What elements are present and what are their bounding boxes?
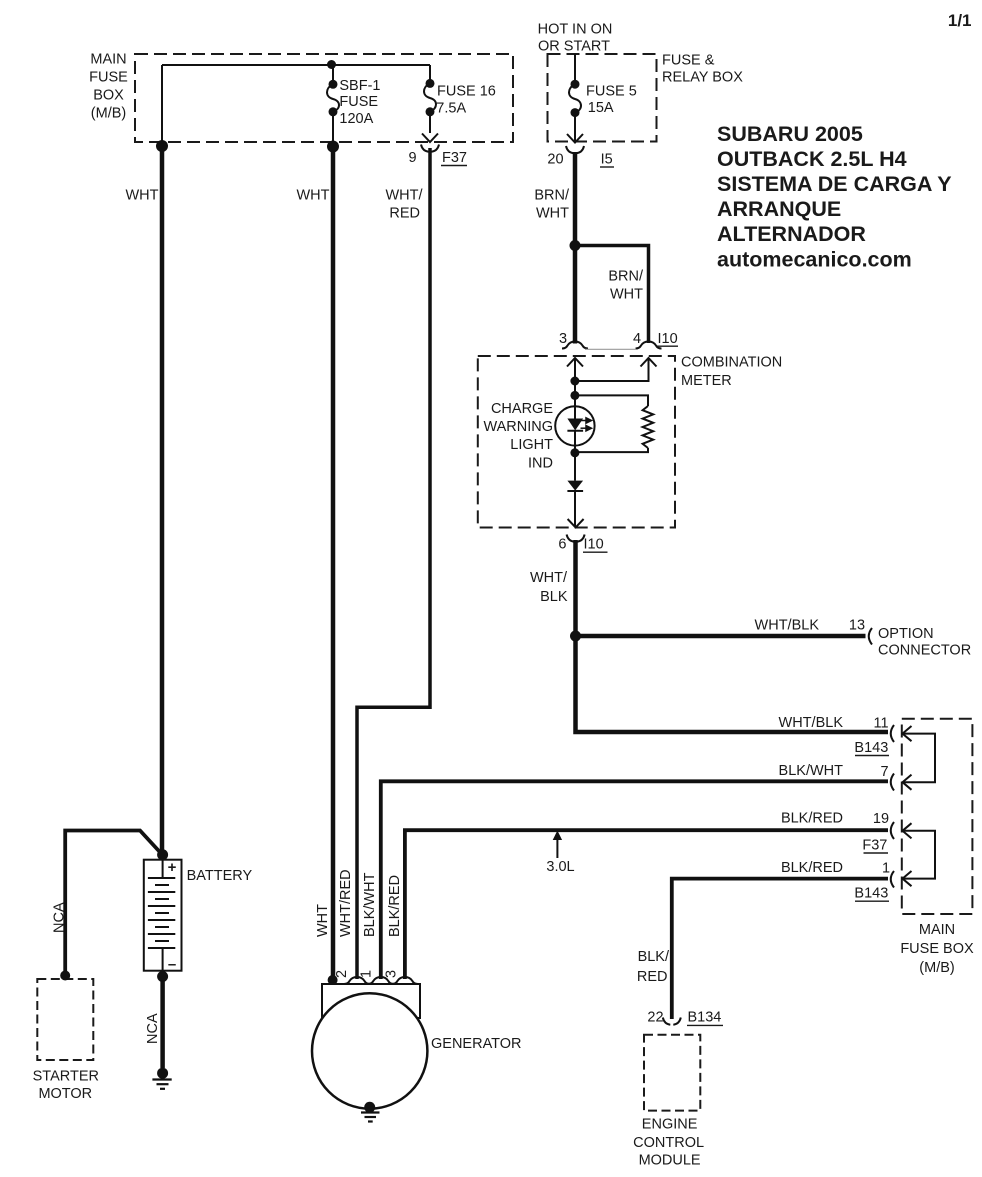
svg-text:–: –	[168, 956, 176, 973]
svg-text:FUSE: FUSE	[89, 70, 128, 86]
svg-text:BLK/WHT: BLK/WHT	[362, 872, 378, 937]
svg-text:RELAY BOX: RELAY BOX	[662, 70, 743, 86]
svg-text:CHARGE: CHARGE	[491, 401, 553, 417]
svg-text:3.0L: 3.0L	[546, 859, 574, 875]
svg-text:(M/B): (M/B)	[91, 106, 126, 122]
svg-text:COMBINATION: COMBINATION	[681, 355, 782, 371]
svg-text:GENERATOR: GENERATOR	[431, 1036, 522, 1052]
svg-text:MOTOR: MOTOR	[38, 1086, 92, 1102]
svg-text:2: 2	[334, 970, 350, 978]
svg-text:FUSE 5: FUSE 5	[586, 84, 637, 100]
svg-text:15A: 15A	[588, 100, 614, 116]
svg-text:WHT/BLK: WHT/BLK	[779, 715, 844, 731]
svg-text:6: 6	[558, 537, 566, 553]
svg-text:1: 1	[882, 861, 890, 877]
svg-text:IND: IND	[528, 456, 553, 472]
svg-text:MAIN: MAIN	[90, 52, 126, 68]
svg-text:BATTERY: BATTERY	[187, 868, 253, 884]
svg-text:BLK/: BLK/	[638, 949, 670, 965]
svg-text:WHT: WHT	[315, 904, 331, 937]
svg-text:7: 7	[880, 764, 888, 780]
svg-text:FUSE BOX: FUSE BOX	[900, 941, 974, 957]
svg-text:BOX: BOX	[93, 88, 124, 104]
svg-text:MODULE: MODULE	[639, 1152, 701, 1168]
svg-text:3: 3	[384, 970, 400, 978]
svg-text:BLK/RED: BLK/RED	[781, 860, 843, 876]
svg-text:OUTBACK 2.5L H4: OUTBACK 2.5L H4	[717, 147, 907, 171]
svg-text:(M/B): (M/B)	[919, 960, 954, 976]
svg-text:FUSE: FUSE	[339, 94, 378, 110]
svg-text:METER: METER	[681, 373, 732, 389]
svg-text:BRN/: BRN/	[608, 269, 644, 285]
svg-text:ENGINE: ENGINE	[642, 1117, 698, 1133]
svg-text:WHT: WHT	[536, 206, 569, 222]
svg-text:FUSE 16: FUSE 16	[437, 84, 496, 100]
svg-text:BLK: BLK	[540, 589, 568, 605]
svg-text:19: 19	[873, 811, 889, 827]
svg-text:F37: F37	[862, 838, 887, 854]
svg-text:B134: B134	[688, 1010, 722, 1026]
svg-text:HOT IN ON: HOT IN ON	[538, 21, 613, 37]
svg-text:1: 1	[359, 970, 375, 978]
svg-text:WHT: WHT	[296, 188, 329, 204]
svg-text:B143: B143	[854, 740, 888, 756]
svg-text:22: 22	[647, 1010, 663, 1026]
svg-text:WHT/RED: WHT/RED	[338, 869, 354, 937]
svg-text:CONNECTOR: CONNECTOR	[878, 643, 971, 659]
svg-text:WHT/: WHT/	[385, 188, 423, 204]
svg-text:SISTEMA DE CARGA Y: SISTEMA DE CARGA Y	[717, 172, 952, 196]
svg-text:FUSE &: FUSE &	[662, 53, 715, 69]
svg-text:120A: 120A	[339, 111, 373, 127]
svg-text:OR START: OR START	[538, 38, 610, 54]
svg-text:BLK/RED: BLK/RED	[387, 875, 403, 937]
svg-text:BRN/: BRN/	[534, 188, 570, 204]
svg-text:CONTROL: CONTROL	[633, 1135, 704, 1151]
svg-text:WHT/BLK: WHT/BLK	[755, 618, 820, 634]
svg-text:I10: I10	[658, 331, 678, 347]
svg-text:OPTION: OPTION	[878, 626, 934, 642]
svg-text:4: 4	[633, 331, 641, 347]
svg-text:20: 20	[547, 152, 563, 168]
svg-text:WHT/: WHT/	[530, 570, 568, 586]
svg-text:1/1: 1/1	[948, 11, 972, 30]
svg-text:9: 9	[408, 150, 416, 166]
svg-text:SUBARU 2005: SUBARU 2005	[717, 122, 863, 146]
svg-text:LIGHT: LIGHT	[510, 437, 553, 453]
svg-text:7.5A: 7.5A	[436, 101, 466, 117]
svg-text:STARTER: STARTER	[33, 1068, 99, 1084]
svg-text:automecanico.com: automecanico.com	[717, 248, 912, 272]
svg-text:3: 3	[559, 331, 567, 347]
svg-text:BLK/WHT: BLK/WHT	[779, 763, 844, 779]
svg-text:ALTERNADOR: ALTERNADOR	[717, 222, 866, 246]
svg-text:MAIN: MAIN	[919, 922, 955, 938]
svg-text:WHT: WHT	[125, 188, 158, 204]
svg-text:11: 11	[873, 716, 888, 732]
svg-text:WHT: WHT	[610, 287, 643, 303]
svg-text:13: 13	[849, 618, 865, 634]
svg-text:F37: F37	[442, 150, 467, 166]
svg-text:I5: I5	[601, 152, 613, 168]
svg-text:BLK/RED: BLK/RED	[781, 811, 843, 827]
svg-text:NCA: NCA	[52, 902, 68, 933]
svg-text:SBF-1: SBF-1	[339, 78, 380, 94]
svg-text:+: +	[168, 859, 177, 876]
svg-text:B143: B143	[854, 886, 888, 902]
svg-text:ARRANQUE: ARRANQUE	[717, 197, 841, 221]
svg-text:RED: RED	[637, 969, 668, 985]
svg-text:I10: I10	[584, 537, 604, 553]
svg-text:NCA: NCA	[145, 1013, 161, 1044]
svg-text:RED: RED	[389, 206, 420, 222]
svg-text:WARNING: WARNING	[483, 419, 553, 435]
